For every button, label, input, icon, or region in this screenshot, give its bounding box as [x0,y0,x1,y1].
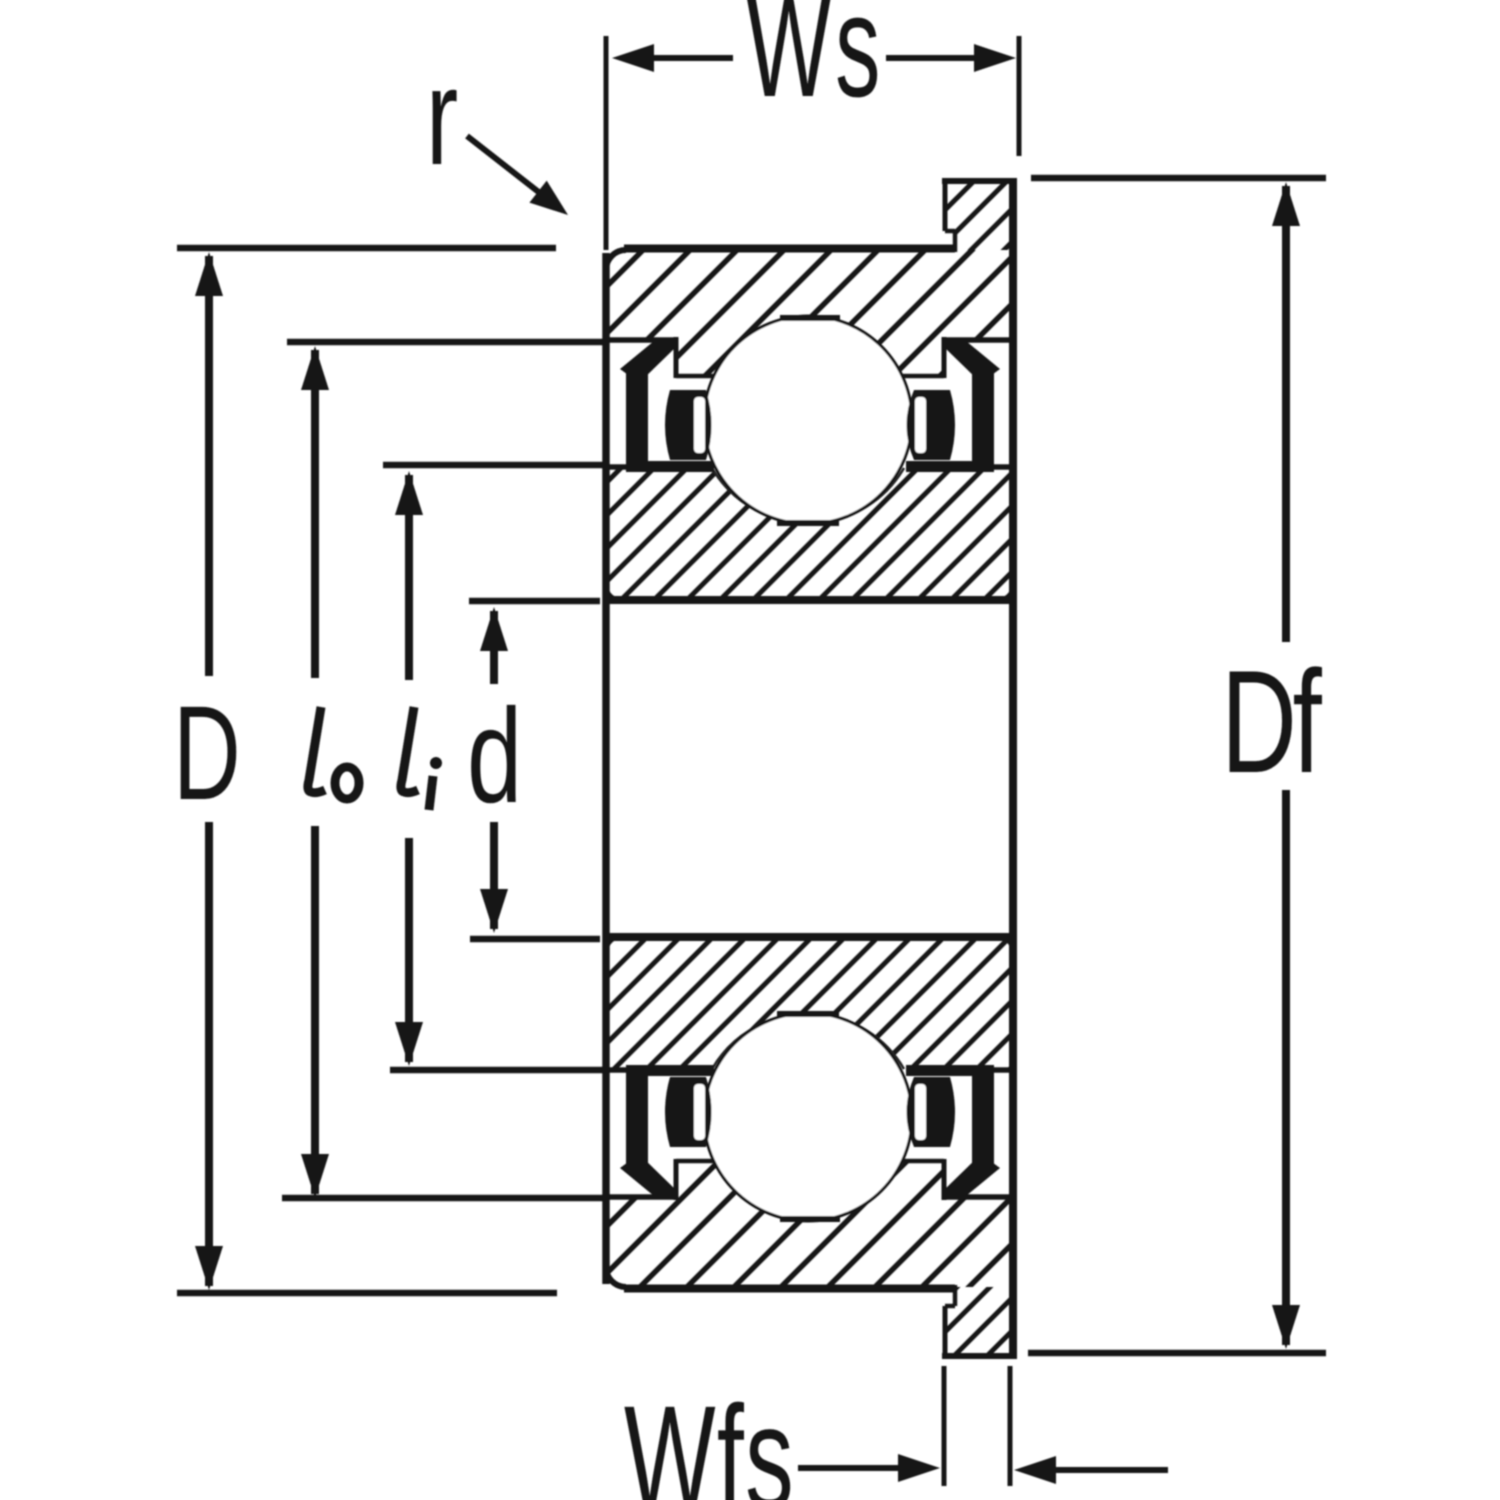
leader arrowhead r [529,181,568,215]
flange outer edge (top) [942,178,1013,184]
dimension Wfs arrow left shaft [798,1465,904,1471]
outer ring land edge left (top) [606,337,676,343]
seal lip highlight left (top bearing) [694,397,705,453]
dimension d shaft lower [490,822,498,929]
seal lip highlight right (bottom bearing) [915,1084,926,1140]
flange notch horizontal (bottom) [945,1304,955,1309]
seal groove wall right (top) [942,337,947,378]
outer ring land edge right (top) [944,337,1013,343]
seal lip highlight right (top bearing) [915,397,926,453]
inner raceway land (bottom) [777,1011,839,1017]
svg-text:Ws: Ws [746,0,884,127]
outer raceway land (bottom) [780,1216,840,1222]
dimension Ws arrowhead right [974,44,1016,72]
dimension lo arrowhead up [301,346,329,390]
ball (top bearing) [704,316,912,524]
outer ring corner radius r (top-left) [606,250,626,270]
dimension Df shaft upper [1282,186,1290,642]
inner raceway arc (bottom) [712,1014,904,1069]
dimension lo extension line bottom [282,1195,604,1202]
dimension D arrowhead down [195,1246,223,1290]
inner ring corner (top brg, right) [999,586,1013,600]
dimension D extension line bottom [177,1290,557,1297]
outer ring top edge (top) [624,245,955,253]
inner ring shoulder edge left (bottom) [606,1067,709,1073]
dimension Ws extension line left [604,36,609,250]
inner raceway arc (top) [712,468,904,523]
label lo script-l [308,707,325,793]
dimension Wfs extension line right [1008,1366,1013,1486]
seal contact bar right (top bearing) [906,461,994,472]
dimension Ws extension line right [1017,36,1022,156]
seal body left (top bearing) [626,367,648,470]
seal groove ledge left (top) [676,374,714,379]
inner ring shoulder edge right (bottom) [907,1067,1013,1073]
dimension li shaft upper [405,475,413,680]
dimension li shaft lower [405,838,413,1062]
outer ring land edge right (bottom) [944,1194,1013,1200]
svg-text:r: r [426,40,458,194]
dimension d extension line bottom [470,936,600,943]
dimension lo shaft lower [311,826,319,1194]
seal inner lip left (bottom bearing) [665,1077,712,1147]
flange (bottom) hatched section [945,1287,1013,1356]
dimension Wfs arrowhead left [898,1454,940,1482]
seal groove ledge left (bottom) [676,1159,714,1164]
dimension lo shaft upper [311,350,319,678]
svg-text:D: D [173,677,241,828]
dimension Wfs extension line left [942,1366,947,1486]
seal outer lip left (bottom bearing) [620,1154,676,1196]
dimension Ws arrow right shaft [886,55,978,61]
dimension Ws arrow left shaft [650,55,733,61]
leader line r [467,136,545,197]
bore line (bottom bearing) [606,933,1013,941]
seal groove wall right (bottom) [942,1159,947,1200]
dimension D extension line top [177,245,556,252]
dimension d extension line top [469,598,600,605]
seal contact bar right (bottom bearing) [906,1065,994,1076]
svg-text:d: d [467,680,522,830]
dimension d shaft upper [490,611,498,684]
label li script-l [401,707,418,793]
flange notch vertical (top) [953,231,958,252]
inner ring shoulder edge left (top) [606,464,709,470]
outer ring (top bearing) hatched section [606,250,1013,376]
seal inner lip left (top bearing) [665,390,712,460]
dimension lo arrowhead down [301,1154,329,1198]
outer raceway arc (bottom) [712,1102,904,1161]
dimension li extension line top [383,462,604,469]
inner ring (top bearing) hatched section [606,467,1013,600]
outer raceway arc (top) [712,376,904,435]
inner ring corner (top brg, left) [606,586,620,600]
flange left edge (bottom) [943,1306,948,1356]
inner ring shoulder edge right (top) [907,464,1013,470]
outer ring (bottom bearing) hatched section [606,1161,1013,1287]
seal contact bar left (top bearing) [626,461,714,472]
dimension Ws arrowhead left [612,44,654,72]
dimension Df arrowhead down [1272,1305,1300,1349]
label lo subscript o [335,767,359,799]
seal inner lip right (bottom bearing) [907,1077,956,1147]
seal outer lip left (top bearing) [620,341,676,383]
outer ring corner radius (bottom-left) [606,1267,626,1287]
flange left edge (top) [943,181,948,231]
seal lip highlight left (bottom bearing) [694,1084,705,1140]
ball (bottom bearing) [704,1013,912,1221]
bearing left face line [602,253,610,1284]
inner raceway land (top) [777,520,839,526]
svg-text:Df: Df [1221,640,1322,803]
inner ring (bottom bearing) hatched section [606,937,1013,1070]
dimension D arrowhead up [195,252,223,296]
inner ring corner (bottom brg, right) [999,937,1013,951]
seal body right (top bearing) [972,367,994,470]
seal groove ledge right (bottom) [902,1159,944,1164]
dimension Df extension line bottom [1028,1350,1326,1357]
seal groove ledge right (top) [902,374,944,379]
flange notch horizontal (top) [945,229,955,234]
dimension d arrowhead up [480,607,508,651]
dimension Df extension line top [1031,175,1326,182]
bearing right face / flange face line [1009,178,1017,1359]
flange notch vertical (bottom) [953,1285,958,1306]
dimension D shaft upper [205,256,213,676]
dimension Df shaft lower [1282,790,1290,1345]
dimension li extension line bottom [390,1067,604,1074]
seal groove wall left (top) [674,337,679,378]
dimension Wfs arrow right shaft [1054,1467,1168,1473]
svg-text:Wfs: Wfs [624,1376,795,1500]
seal inner lip right (top bearing) [907,390,956,460]
outer ring land edge left (bottom) [606,1194,676,1200]
outer ring bottom edge (bottom brg) [624,1285,955,1293]
dimension Wfs arrowhead right [1014,1456,1056,1484]
outer raceway land (top) [780,315,840,321]
seal outer lip right (bottom bearing) [944,1154,1000,1196]
seal body right (bottom bearing) [972,1067,994,1170]
dimension li arrowhead up [395,471,423,515]
bore line (top bearing) [606,596,1013,604]
seal groove wall left (bottom) [674,1159,679,1200]
flange outer edge (bottom) [942,1353,1013,1359]
dimension li arrowhead down [395,1022,423,1066]
flange (top) hatched section [945,181,1013,250]
dimension D shaft lower [205,822,213,1286]
dimension d arrowhead down [480,889,508,933]
seal outer lip right (top bearing) [944,341,1000,383]
label li subscript i [429,757,442,810]
dimension lo extension line top [287,339,604,346]
seal body left (bottom bearing) [626,1067,648,1170]
seal contact bar left (bottom bearing) [626,1065,714,1076]
inner ring corner (bottom brg, left) [606,937,620,951]
dimension Df arrowhead up [1272,182,1300,226]
